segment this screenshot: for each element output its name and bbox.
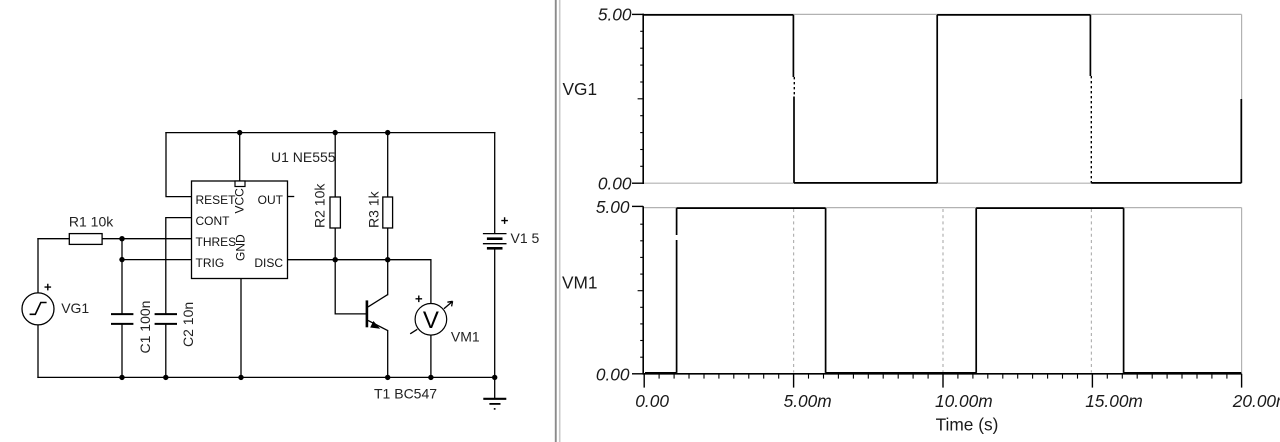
wave high segment 1 bbox=[677, 207, 826, 209]
y axis bbox=[642, 14, 644, 184]
svg-text:RESET: RESET bbox=[196, 193, 237, 207]
svg-text:0.00: 0.00 bbox=[596, 364, 630, 384]
node TRIG junction bbox=[119, 257, 124, 262]
wire VCC pin drop bbox=[239, 133, 241, 181]
y axis minor ticks bbox=[638, 31, 644, 166]
svg-text:5.00m: 5.00m bbox=[784, 391, 832, 411]
wave fall edge 5ms solid bottom bbox=[793, 97, 795, 183]
gridline top 5.00 bbox=[643, 207, 1241, 209]
wire ground rail bbox=[38, 376, 495, 378]
y axis major tick 0.00 bbox=[632, 373, 643, 375]
y axis bbox=[642, 206, 644, 374]
resistor R2 bbox=[330, 197, 340, 228]
node THRES junction bbox=[119, 236, 124, 241]
op-amp U1 NE555 IC body bbox=[192, 181, 288, 279]
gridline top 5.00 bbox=[643, 13, 1241, 15]
node C2 ground bbox=[163, 375, 168, 380]
svg-text:THRES: THRES bbox=[196, 235, 237, 249]
wire VG1 to R1 (THRES net) bbox=[38, 238, 69, 240]
svg-text:T1 BC547: T1 BC547 bbox=[374, 386, 437, 402]
svg-text:10.00m: 10.00m bbox=[935, 391, 993, 411]
wave rise edge 1ms lower part bbox=[676, 240, 678, 373]
VM1 arrow head bbox=[444, 301, 453, 309]
wave rise edge 11ms bbox=[975, 208, 977, 373]
wave fall edge 15ms solid top bbox=[1089, 15, 1091, 76]
splitter divider bbox=[555, 0, 557, 442]
x axis minor ticks bbox=[659, 374, 1227, 379]
wire C2 bottom lead bbox=[165, 324, 167, 378]
wire base branch bbox=[335, 260, 366, 314]
transistor Q1 emitter diagonal bbox=[368, 320, 388, 330]
wire IC GND drop bbox=[240, 279, 242, 378]
plot right border bbox=[1241, 14, 1243, 183]
svg-text:V1 5: V1 5 bbox=[511, 230, 540, 246]
wave low end bbox=[1124, 372, 1242, 374]
svg-text:R3 1k: R3 1k bbox=[366, 190, 382, 228]
wire DISC line to VM1 bbox=[288, 260, 431, 304]
wave high segment 2 bbox=[976, 207, 1123, 209]
wire VG1 top lead bbox=[37, 239, 39, 293]
transistor Q1 emitter arrow bbox=[370, 321, 380, 329]
wire battery top lead bbox=[494, 133, 496, 234]
svg-text:OUT: OUT bbox=[258, 193, 284, 207]
wire C1 bottom lead bbox=[121, 324, 123, 378]
node collector junction bbox=[385, 257, 390, 262]
VM1 arrow tail bbox=[410, 329, 417, 334]
wave rise edge 10ms bbox=[936, 15, 938, 183]
VG1 waveform glyph bbox=[30, 303, 47, 315]
wire R2 bottom lead bbox=[334, 228, 336, 260]
dashed gridline 15ms bbox=[1090, 209, 1092, 373]
svg-text:0.00: 0.00 bbox=[635, 391, 669, 411]
svg-text:VG1: VG1 bbox=[563, 79, 598, 99]
node VCC/U1 top bbox=[237, 130, 242, 135]
svg-text:VM1: VM1 bbox=[562, 273, 598, 293]
dashed gridline 5ms bbox=[793, 209, 795, 373]
wire R3 bottom lead bbox=[387, 228, 389, 260]
svg-text:CONT: CONT bbox=[196, 214, 231, 228]
svg-text:C2 10n: C2 10n bbox=[180, 302, 196, 347]
wire R2 top lead bbox=[334, 133, 336, 197]
gridline bottom 0.00 bbox=[643, 182, 1241, 184]
voltmeter VM1 bbox=[415, 304, 447, 336]
wave rise edge 1ms upper part bbox=[676, 208, 678, 235]
svg-text:5.00: 5.00 bbox=[598, 5, 632, 25]
svg-text:GND: GND bbox=[233, 234, 247, 261]
svg-text:R1 10k: R1 10k bbox=[69, 213, 114, 229]
node emitter ground bbox=[385, 375, 390, 380]
transistor Q1 collector diagonal bbox=[368, 295, 388, 307]
node battery ground bbox=[492, 375, 497, 380]
VM1 plus sign bbox=[416, 296, 423, 303]
svg-text:15.00m: 15.00m bbox=[1085, 391, 1143, 411]
wire top rail VCC bbox=[166, 132, 495, 134]
wave high segment 1 bbox=[643, 14, 793, 16]
V1 plus sign bbox=[501, 217, 508, 224]
wire battery bottom lead bbox=[494, 248, 496, 377]
resistor R3 bbox=[383, 197, 393, 228]
svg-text:20.00m: 20.00m bbox=[1232, 391, 1280, 411]
wire THRES junction down to C1 bbox=[121, 239, 123, 314]
svg-text:U1 NE555: U1 NE555 bbox=[271, 149, 336, 165]
transistor Q1 base bar bbox=[366, 300, 369, 327]
wire VG1 bottom lead bbox=[37, 325, 39, 378]
svg-text:C1 100n: C1 100n bbox=[137, 301, 153, 354]
capacitor C2 bbox=[155, 314, 177, 324]
y axis major tick 5.00 bbox=[632, 13, 643, 15]
battery V1 bbox=[483, 234, 507, 249]
svg-text:TRIG: TRIG bbox=[196, 256, 225, 270]
wave fall edge 15ms dashed bottom bbox=[1090, 76, 1092, 183]
svg-text:V: V bbox=[423, 307, 439, 334]
wire collector vertical bbox=[387, 260, 389, 295]
node IC ground bbox=[238, 375, 243, 380]
y axis major tick 5.00 bbox=[632, 205, 643, 207]
pin VCC square bbox=[235, 181, 245, 187]
node C1 ground bbox=[119, 375, 124, 380]
y axis major tick 0.00 bbox=[632, 182, 643, 184]
plot right border bbox=[1241, 208, 1243, 374]
wire VM1 bottom lead bbox=[430, 335, 432, 378]
node VM1 ground bbox=[428, 375, 433, 380]
wave fall edge 16ms bbox=[1123, 208, 1125, 373]
wave low segment 1 bbox=[794, 182, 937, 184]
capacitor C1 bbox=[111, 314, 133, 324]
svg-text:5.00: 5.00 bbox=[596, 197, 630, 217]
ground symbol bbox=[483, 377, 506, 409]
wire R3 top lead bbox=[387, 133, 389, 197]
wave fall edge 5ms solid top bbox=[792, 15, 794, 77]
svg-text:VG1: VG1 bbox=[61, 300, 89, 316]
svg-text:DISC: DISC bbox=[254, 256, 283, 270]
VG1 waveform bbox=[643, 15, 1241, 183]
wave fall edge 6ms bbox=[825, 208, 827, 373]
node R3 top bbox=[385, 130, 390, 135]
wire emitter vertical bbox=[387, 331, 389, 378]
svg-text:0.00: 0.00 bbox=[598, 173, 632, 193]
wave low segment 2 bbox=[826, 372, 977, 374]
wave high segment 2 bbox=[937, 14, 1090, 16]
VM1 waveform bbox=[645, 208, 1241, 373]
wave low segment 2 bbox=[1091, 182, 1241, 184]
svg-text:R2 10k: R2 10k bbox=[312, 183, 328, 228]
dashed gridline 10ms bbox=[942, 209, 944, 373]
svg-text:VM1: VM1 bbox=[451, 328, 480, 344]
VG1 plus sign bbox=[45, 284, 52, 291]
wire left drop to RESET bbox=[166, 133, 192, 197]
node R2 top bbox=[333, 130, 338, 135]
wire R1 to THRES pin bbox=[102, 238, 191, 240]
wave low start bbox=[645, 372, 677, 374]
wire TRIG line bbox=[122, 259, 192, 261]
wave partial rise at right edge bbox=[1240, 99, 1242, 183]
wire CONT stub and C2 top lead bbox=[166, 218, 192, 315]
node DISC/R2 junction bbox=[333, 257, 338, 262]
svg-text:VCC: VCC bbox=[232, 188, 246, 214]
resistor R1 bbox=[69, 234, 102, 245]
y axis minor ticks bbox=[638, 224, 644, 357]
svg-text:Time (s): Time (s) bbox=[936, 415, 999, 435]
generator VG1 bbox=[22, 293, 54, 325]
x axis major ticks bbox=[644, 374, 1241, 388]
x axis bbox=[643, 373, 1241, 375]
wave fall edge 5ms dashed middle bbox=[793, 77, 795, 97]
wire OUT stub bbox=[288, 196, 294, 198]
node junction dots bbox=[119, 130, 497, 380]
